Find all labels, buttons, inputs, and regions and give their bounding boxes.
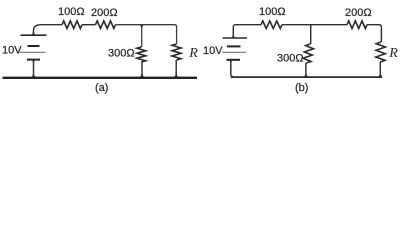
svg-text:R: R — [388, 46, 398, 61]
svg-text:10V: 10V — [2, 45, 22, 57]
svg-text:R: R — [188, 46, 198, 61]
svg-text:300Ω: 300Ω — [277, 53, 304, 65]
svg-text:(b): (b) — [295, 82, 308, 94]
svg-text:(a): (a) — [95, 82, 108, 94]
svg-text:200Ω: 200Ω — [345, 7, 372, 19]
svg-text:300Ω: 300Ω — [108, 48, 135, 60]
svg-text:100Ω: 100Ω — [58, 6, 85, 18]
svg-text:10V: 10V — [203, 45, 223, 57]
svg-text:200Ω: 200Ω — [91, 7, 118, 19]
svg-text:100Ω: 100Ω — [259, 6, 286, 18]
